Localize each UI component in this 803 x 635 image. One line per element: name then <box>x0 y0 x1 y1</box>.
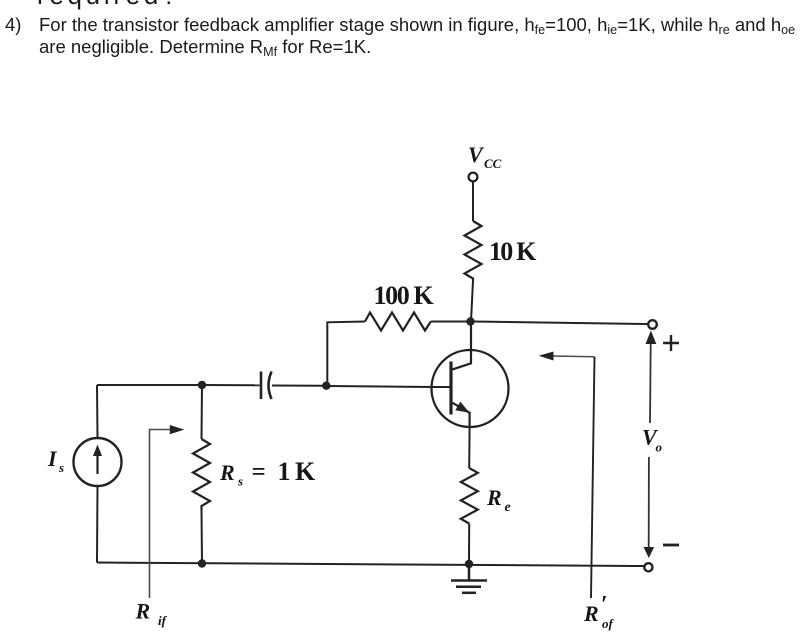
Vo arrow lower segment with arrowhead <box>648 457 650 547</box>
wire 10K to collector node <box>471 281 473 321</box>
emitter arrowhead <box>455 402 469 413</box>
Vcc label <box>468 142 502 171</box>
wire emitter to Re <box>468 427 470 468</box>
problem text line 1 <box>5 14 21 36</box>
collector lead <box>453 325 472 369</box>
transistor Q1 <box>432 325 509 427</box>
ground node <box>465 560 473 568</box>
label Re <box>486 485 511 515</box>
svg-text:R: R <box>486 485 502 510</box>
resistor 100K <box>365 313 431 331</box>
problem text line 2 <box>39 36 371 58</box>
svg-text:I: I <box>47 446 58 471</box>
wire Rs node to capacitor <box>202 384 260 386</box>
output - terminal <box>644 563 652 571</box>
resistor Re <box>461 468 478 524</box>
wire 100K right to collector node <box>431 321 467 323</box>
plus sign <box>663 335 679 351</box>
svg-text:R: R <box>583 601 599 626</box>
svg-text:R: R <box>219 460 235 485</box>
svg-text:e: e <box>505 500 511 515</box>
emitter lead <box>453 403 470 427</box>
svg-text:10 K: 10 K <box>489 237 537 266</box>
node base junction <box>322 382 330 390</box>
label R'of <box>583 592 615 631</box>
svg-text:=: = <box>252 459 266 486</box>
minus sign <box>663 544 679 547</box>
base bar <box>449 362 452 415</box>
Vcc terminal <box>469 173 478 182</box>
wire capacitor right to base node <box>272 385 323 387</box>
label Is <box>47 446 64 475</box>
wire source top <box>97 384 202 386</box>
node Rs bottom <box>198 559 206 567</box>
svg-text:R: R <box>135 599 151 624</box>
resistor Rs <box>201 385 204 439</box>
svg-text:o: o <box>656 440 663 455</box>
Vo arrow upper segment with arrowhead <box>649 344 652 423</box>
capacitor <box>260 372 263 400</box>
wire Vcc to 10K <box>472 182 474 222</box>
wire 100K left + feedback vertical <box>327 322 365 384</box>
Rif pointer arrow <box>150 430 172 599</box>
svg-text:′: ′ <box>601 592 608 618</box>
svg-text:s: s <box>237 474 243 489</box>
svg-text:V: V <box>468 142 485 167</box>
wire source top vertical <box>96 385 99 438</box>
label Rif <box>135 599 168 629</box>
bottom wire <box>97 563 644 567</box>
label Rs = 1 K <box>219 457 316 489</box>
cut-off previous line "required?" <box>37 0 180 11</box>
ground symbol <box>451 564 487 593</box>
base lead <box>432 386 450 388</box>
wire Re to ground node <box>468 524 470 565</box>
node Rs top <box>198 381 206 389</box>
wire base node to transistor base <box>326 386 432 387</box>
svg-text:if: if <box>158 613 168 628</box>
svg-text:100 K: 100 K <box>374 281 435 310</box>
svg-text:CC: CC <box>484 156 502 171</box>
svg-text:1 K: 1 K <box>278 457 317 486</box>
wire collector node to output + terminal <box>474 322 647 325</box>
wire source bottom vertical <box>96 486 99 563</box>
svg-text:s: s <box>58 460 64 475</box>
node collector junction <box>466 317 474 325</box>
resistor 10K <box>465 221 482 281</box>
Vo label <box>642 425 663 455</box>
current source Is <box>74 438 122 486</box>
output + terminal <box>648 320 657 329</box>
svg-text:of: of <box>602 616 615 631</box>
R'of pointer arrow <box>552 355 595 358</box>
